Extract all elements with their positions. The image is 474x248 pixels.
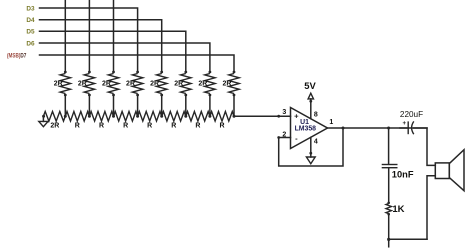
resistor R (ladder section 2) xyxy=(89,112,113,122)
wire D0 (vertical drop from cropped line above) xyxy=(64,0,66,72)
resistor 2R (bit D2 branch) xyxy=(102,71,119,97)
wire D3 xyxy=(40,8,138,72)
pin dot op-amp pin 4 xyxy=(309,152,312,155)
wire bottom rail xyxy=(389,238,427,240)
resistor 2R (bit D3 branch) xyxy=(126,71,143,97)
wire D1 (vertical drop from cropped line above) xyxy=(88,0,90,72)
wire 2R bottom to ladder node 7 xyxy=(233,95,235,116)
junction dot ladder node 7 xyxy=(233,115,236,118)
svg-text:+: + xyxy=(294,112,299,121)
wire output node to 10nF xyxy=(388,128,390,164)
svg-text:D4: D4 xyxy=(26,17,35,24)
svg-text:2R: 2R xyxy=(126,81,135,88)
resistor 2R (bit D7 branch) xyxy=(222,71,239,97)
resistor R (ladder section 1) xyxy=(65,112,89,122)
pin dot op-amp pin 3 xyxy=(277,115,280,118)
wire ladder output to op-amp pin 3 xyxy=(234,115,291,117)
junction dot ladder node 3 xyxy=(136,115,139,118)
wire D4 xyxy=(40,20,162,72)
ground (ladder left) xyxy=(39,116,48,126)
resistor R (ladder section 4) xyxy=(138,112,162,122)
wire 2R bottom to ladder node 1 xyxy=(88,95,90,116)
svg-text:2R: 2R xyxy=(222,81,231,88)
junction dot ladder ground xyxy=(42,115,45,118)
junction dot output node xyxy=(387,127,390,130)
svg-text:2R: 2R xyxy=(50,122,59,129)
wire D7 xyxy=(40,55,235,72)
wire 10nF to 1K xyxy=(388,168,390,203)
resistor 1K xyxy=(386,202,391,216)
svg-text:+: + xyxy=(403,121,407,127)
wire 1K to bottom rail xyxy=(388,214,390,239)
resistor 2R (ladder terminator) xyxy=(43,112,65,122)
wire 2R bottom to ladder node 4 xyxy=(161,95,163,116)
svg-text:4: 4 xyxy=(314,139,318,146)
svg-text:5V: 5V xyxy=(304,80,316,91)
resistor R (ladder section 6) xyxy=(186,112,210,122)
wire 2R bottom to ladder node 0 xyxy=(64,95,66,116)
junction dot ladder node 6 xyxy=(208,115,211,118)
resistor R (ladder section 5) xyxy=(162,112,186,122)
svg-text:R: R xyxy=(75,122,80,129)
wire speaker bottom terminal to rail xyxy=(427,176,435,240)
svg-text:D6: D6 xyxy=(26,40,35,47)
svg-text:D3: D3 xyxy=(26,5,35,12)
wire 2R bottom to ladder node 3 xyxy=(137,95,139,116)
pin dot op-amp pin 2 xyxy=(277,136,280,139)
junction dot ladder node 5 xyxy=(184,115,187,118)
op-amp U1 LM358 body xyxy=(291,108,328,149)
svg-text:D5: D5 xyxy=(26,29,35,36)
pin dot op-amp pin 8 xyxy=(309,100,312,103)
svg-text:R: R xyxy=(195,122,200,129)
wire op-amp output (pin 1) xyxy=(328,127,428,129)
resistor 2R (bit D0 branch) xyxy=(54,71,71,97)
svg-text:1K: 1K xyxy=(392,204,404,215)
svg-text:10nF: 10nF xyxy=(392,170,414,180)
power arrow 5V xyxy=(308,93,313,99)
svg-text:R: R xyxy=(123,122,128,129)
svg-text:LM358: LM358 xyxy=(295,126,317,133)
svg-text:2R: 2R xyxy=(54,81,63,88)
wire stub to cropped ground xyxy=(388,239,390,247)
resistor 2R (bit D1 branch) xyxy=(78,71,95,97)
svg-text:1: 1 xyxy=(329,119,333,126)
wire pin 4 to ground xyxy=(310,137,312,157)
wire 2R bottom to ladder node 6 xyxy=(209,95,211,116)
ground (op-amp pin 4) xyxy=(306,157,315,164)
capacitor 220uF (polarised) xyxy=(400,121,414,134)
svg-text:2R: 2R xyxy=(102,81,111,88)
svg-text:2R: 2R xyxy=(174,81,183,88)
wire 2R bottom to ladder node 2 xyxy=(113,95,115,116)
wire D2 (vertical drop from cropped line above) xyxy=(113,0,115,72)
svg-text:2R: 2R xyxy=(150,81,159,88)
svg-text:R: R xyxy=(147,122,152,129)
svg-text:2R: 2R xyxy=(198,81,207,88)
wire D6 xyxy=(40,43,210,72)
resistor 2R (bit D5 branch) xyxy=(174,71,191,97)
svg-text:R: R xyxy=(219,122,224,129)
wire feedback (pin 2 to output) xyxy=(279,128,343,166)
resistor R (ladder section 3) xyxy=(114,112,138,122)
wire D5 xyxy=(40,31,186,71)
svg-text:220uF: 220uF xyxy=(400,110,423,119)
capacitor 10nF xyxy=(382,165,398,168)
svg-text:R: R xyxy=(171,122,176,129)
net label (MSB)D7 xyxy=(7,52,27,59)
junction dot ladder node 1 xyxy=(88,115,91,118)
junction dot ladder node 0 xyxy=(64,115,67,118)
svg-text:3: 3 xyxy=(282,109,286,116)
wire 220uF to speaker top terminal xyxy=(414,128,436,165)
resistor R (ladder section 7) xyxy=(210,112,234,122)
svg-text:8: 8 xyxy=(314,111,318,118)
wire pin 8 to 5V xyxy=(310,99,312,119)
svg-text:2R: 2R xyxy=(78,81,87,88)
speaker LS1 xyxy=(435,150,464,191)
resistor 2R (bit D6 branch) xyxy=(198,71,215,97)
resistor 2R (bit D4 branch) xyxy=(150,71,167,97)
wire 2R bottom to ladder node 5 xyxy=(185,95,187,116)
junction dot ladder node 4 xyxy=(160,115,163,118)
svg-text:R: R xyxy=(99,122,104,129)
junction dot bottom rail xyxy=(387,238,390,241)
junction dot feedback/output xyxy=(342,127,345,130)
svg-text:(MSB)D7: (MSB)D7 xyxy=(7,52,27,59)
junction dot ladder node 2 xyxy=(112,115,115,118)
